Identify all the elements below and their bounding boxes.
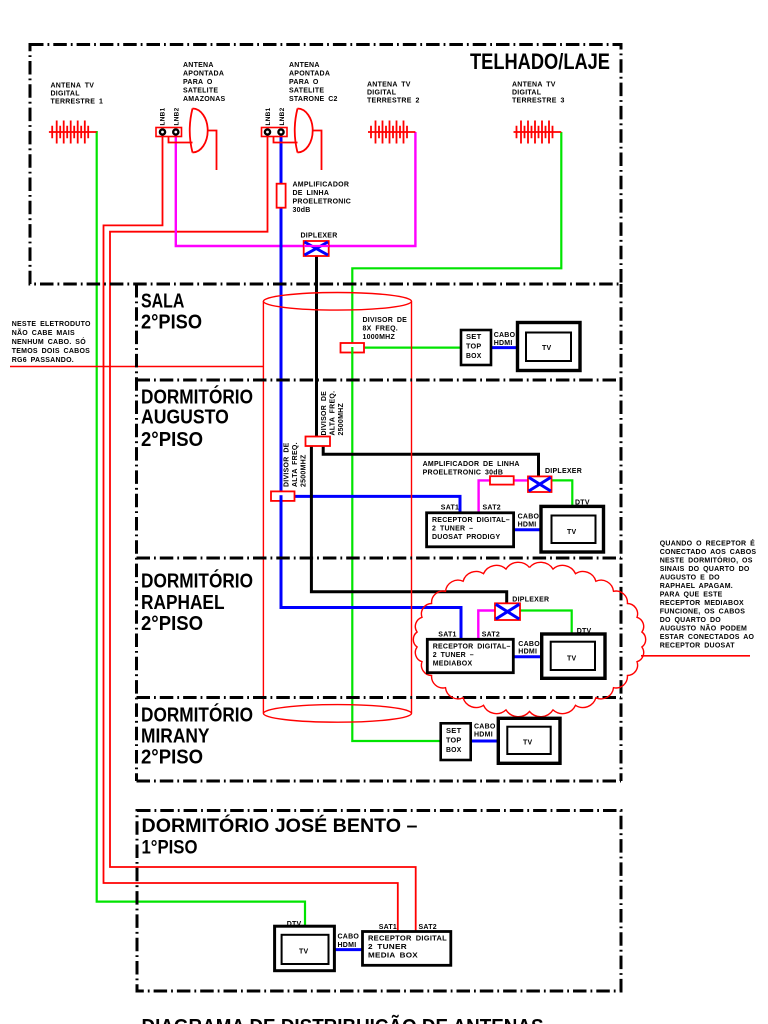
svg-text:QUANDO O RECEPTOR É: QUANDO O RECEPTOR É (660, 539, 755, 548)
svg-text:MEDIA BOX: MEDIA BOX (368, 953, 418, 960)
svg-text:DIGITAL: DIGITAL (512, 90, 542, 97)
svg-text:1000MHZ: 1000MHZ (363, 334, 396, 341)
svg-text:2 TUNER –: 2 TUNER – (433, 652, 474, 659)
svg-text:TV: TV (567, 529, 577, 536)
svg-text:DIGITAL: DIGITAL (367, 90, 397, 97)
svg-text:AUGUSTO: AUGUSTO (141, 406, 229, 429)
svg-text:AMAZONAS: AMAZONAS (183, 96, 226, 103)
svg-text:SINAIS DO QUARTO DO: SINAIS DO QUARTO DO (660, 566, 750, 573)
svg-text:TOP: TOP (466, 344, 482, 351)
svg-text:ANTENA: ANTENA (289, 62, 320, 69)
svg-text:ANTENA: ANTENA (183, 62, 214, 69)
svg-text:2°PISO: 2°PISO (141, 746, 203, 769)
svg-text:SAT2: SAT2 (483, 505, 501, 512)
svg-text:APONTADA: APONTADA (183, 71, 224, 78)
svg-text:HDMI: HDMI (518, 649, 537, 656)
svg-text:DTV: DTV (577, 628, 592, 635)
svg-text:1°PISO: 1°PISO (142, 838, 198, 859)
svg-text:LNB2: LNB2 (279, 107, 286, 125)
svg-text:TOP: TOP (446, 738, 462, 745)
svg-text:CONECTADO AOS CABOS: CONECTADO AOS CABOS (660, 549, 757, 556)
svg-text:AUGUSTO E DO: AUGUSTO E DO (660, 575, 720, 582)
svg-text:TV: TV (542, 345, 552, 352)
svg-text:SAT1: SAT1 (441, 505, 459, 512)
svg-text:ANTENA TV: ANTENA TV (367, 82, 411, 89)
svg-text:HDMI: HDMI (338, 942, 357, 949)
svg-text:TERRESTRE 3: TERRESTRE 3 (512, 98, 565, 105)
svg-text:ALTA FREQ.: ALTA FREQ. (292, 442, 299, 487)
svg-text:STARONE C2: STARONE C2 (289, 96, 338, 103)
svg-text:RECEPTOR DUOSAT: RECEPTOR DUOSAT (660, 643, 736, 650)
svg-text:PARA O: PARA O (183, 79, 213, 86)
svg-text:CABO: CABO (338, 934, 360, 941)
svg-text:2500MHZ: 2500MHZ (338, 403, 345, 436)
svg-text:LNB2: LNB2 (174, 107, 181, 125)
svg-text:DIVISOR DE: DIVISOR DE (363, 317, 408, 324)
svg-text:AMPLIFICADOR DE LINHA: AMPLIFICADOR DE LINHA (423, 461, 520, 468)
svg-text:RECEPTOR DIGITAL–: RECEPTOR DIGITAL– (432, 517, 510, 524)
svg-text:LNB1: LNB1 (160, 107, 167, 125)
svg-text:FUNCIONE, OS CABOS: FUNCIONE, OS CABOS (660, 609, 746, 616)
svg-text:AUGUSTO NÃO PODEM: AUGUSTO NÃO PODEM (660, 624, 747, 633)
svg-text:TERRESTRE 2: TERRESTRE 2 (367, 98, 420, 105)
svg-text:TV: TV (299, 949, 309, 956)
svg-text:DIPLEXER: DIPLEXER (512, 597, 549, 604)
svg-text:MIRANY: MIRANY (141, 725, 210, 748)
svg-text:NENHUM CABO. SÓ: NENHUM CABO. SÓ (12, 337, 87, 346)
svg-text:30dB: 30dB (293, 207, 311, 214)
svg-text:2°PISO: 2°PISO (141, 428, 203, 451)
svg-text:ANTENA TV: ANTENA TV (51, 83, 95, 90)
svg-text:PROELETRONIC 30dB: PROELETRONIC 30dB (423, 470, 504, 477)
svg-text:2 TUNER –: 2 TUNER – (432, 526, 473, 533)
svg-text:HDMI: HDMI (494, 340, 513, 347)
svg-text:AMPLIFICADOR: AMPLIFICADOR (293, 182, 350, 189)
svg-text:HDMI: HDMI (518, 522, 537, 529)
svg-text:DIVISOR DE: DIVISOR DE (321, 391, 328, 436)
svg-text:NESTE DORMITÓRIO, OS: NESTE DORMITÓRIO, OS (660, 556, 753, 565)
svg-text:SATELITE: SATELITE (289, 88, 324, 95)
svg-text:DTV: DTV (287, 921, 302, 928)
svg-text:CABO: CABO (518, 514, 540, 521)
svg-text:TV: TV (567, 656, 577, 663)
svg-text:TERRESTRE 1: TERRESTRE 1 (51, 99, 104, 106)
svg-text:CABO: CABO (494, 332, 516, 339)
svg-text:PARA O: PARA O (289, 79, 319, 86)
svg-text:PROELETRONIC: PROELETRONIC (293, 199, 352, 206)
svg-text:DORMITÓRIO JOSÉ BENTO –: DORMITÓRIO JOSÉ BENTO – (142, 815, 418, 837)
svg-text:SAT1: SAT1 (438, 632, 456, 639)
svg-text:ESTAR CONECTADOS AO: ESTAR CONECTADOS AO (660, 634, 755, 641)
svg-text:2°PISO: 2°PISO (141, 311, 202, 334)
svg-text:SAT1: SAT1 (379, 924, 397, 931)
svg-text:RECEPTOR MEDIABOX: RECEPTOR MEDIABOX (660, 600, 744, 607)
svg-text:2500MHZ: 2500MHZ (301, 454, 308, 487)
svg-text:DIGITAL: DIGITAL (51, 91, 81, 98)
svg-text:LNB1: LNB1 (265, 107, 272, 125)
svg-text:DE LINHA: DE LINHA (293, 190, 330, 197)
svg-text:SAT2: SAT2 (482, 632, 500, 639)
svg-text:NÃO CABE MAIS: NÃO CABE MAIS (12, 328, 75, 337)
svg-text:NESTE ELETRODUTO: NESTE ELETRODUTO (12, 321, 91, 328)
svg-text:DIVISOR DE: DIVISOR DE (284, 442, 291, 487)
svg-text:CABO: CABO (518, 641, 540, 648)
svg-text:ALTA FREQ.: ALTA FREQ. (330, 391, 337, 436)
svg-text:BOX: BOX (446, 747, 462, 754)
svg-text:DTV: DTV (575, 500, 590, 507)
svg-text:ANTENA TV: ANTENA TV (512, 82, 556, 89)
svg-text:SET: SET (466, 334, 482, 341)
svg-text:DIAGRAMA DE DISTRIBUIÇÃO DE AN: DIAGRAMA DE DISTRIBUIÇÃO DE ANTENAS (142, 1015, 544, 1024)
svg-text:DORMITÓRIO: DORMITÓRIO (141, 703, 253, 727)
svg-text:MEDIABOX: MEDIABOX (433, 661, 473, 668)
svg-text:RAPHAEL APAGAM.: RAPHAEL APAGAM. (660, 583, 733, 590)
svg-text:DO QUARTO DO: DO QUARTO DO (660, 617, 722, 624)
svg-text:SALA: SALA (141, 290, 185, 313)
svg-text:TV: TV (523, 740, 533, 747)
svg-text:DORMITÓRIO: DORMITÓRIO (141, 569, 253, 593)
svg-text:DUOSAT PRODIGY: DUOSAT PRODIGY (432, 534, 500, 541)
svg-text:SET: SET (446, 728, 462, 735)
svg-text:RECEPTOR DIGITAL: RECEPTOR DIGITAL (368, 936, 447, 943)
svg-text:APONTADA: APONTADA (289, 71, 330, 78)
svg-text:RG6 PASSANDO.: RG6 PASSANDO. (12, 357, 74, 364)
svg-text:TELHADO/LAJE: TELHADO/LAJE (470, 49, 610, 74)
svg-text:SAT2: SAT2 (419, 924, 437, 931)
svg-text:PARA QUE ESTE: PARA QUE ESTE (660, 592, 723, 599)
svg-text:2 TUNER: 2 TUNER (368, 944, 407, 951)
svg-text:CABO: CABO (474, 724, 496, 731)
svg-text:DIPLEXER: DIPLEXER (301, 233, 338, 240)
svg-text:HDMI: HDMI (474, 732, 493, 739)
svg-text:SATELITE: SATELITE (183, 88, 218, 95)
svg-text:DIPLEXER: DIPLEXER (545, 468, 582, 475)
svg-text:BOX: BOX (466, 353, 482, 360)
svg-text:8X FREQ.: 8X FREQ. (363, 326, 399, 333)
svg-text:TEMOS DOIS CABOS: TEMOS DOIS CABOS (12, 348, 90, 355)
svg-text:RAPHAEL: RAPHAEL (141, 591, 225, 614)
svg-text:2°PISO: 2°PISO (141, 612, 203, 635)
svg-text:RECEPTOR DIGITAL–: RECEPTOR DIGITAL– (433, 644, 511, 651)
